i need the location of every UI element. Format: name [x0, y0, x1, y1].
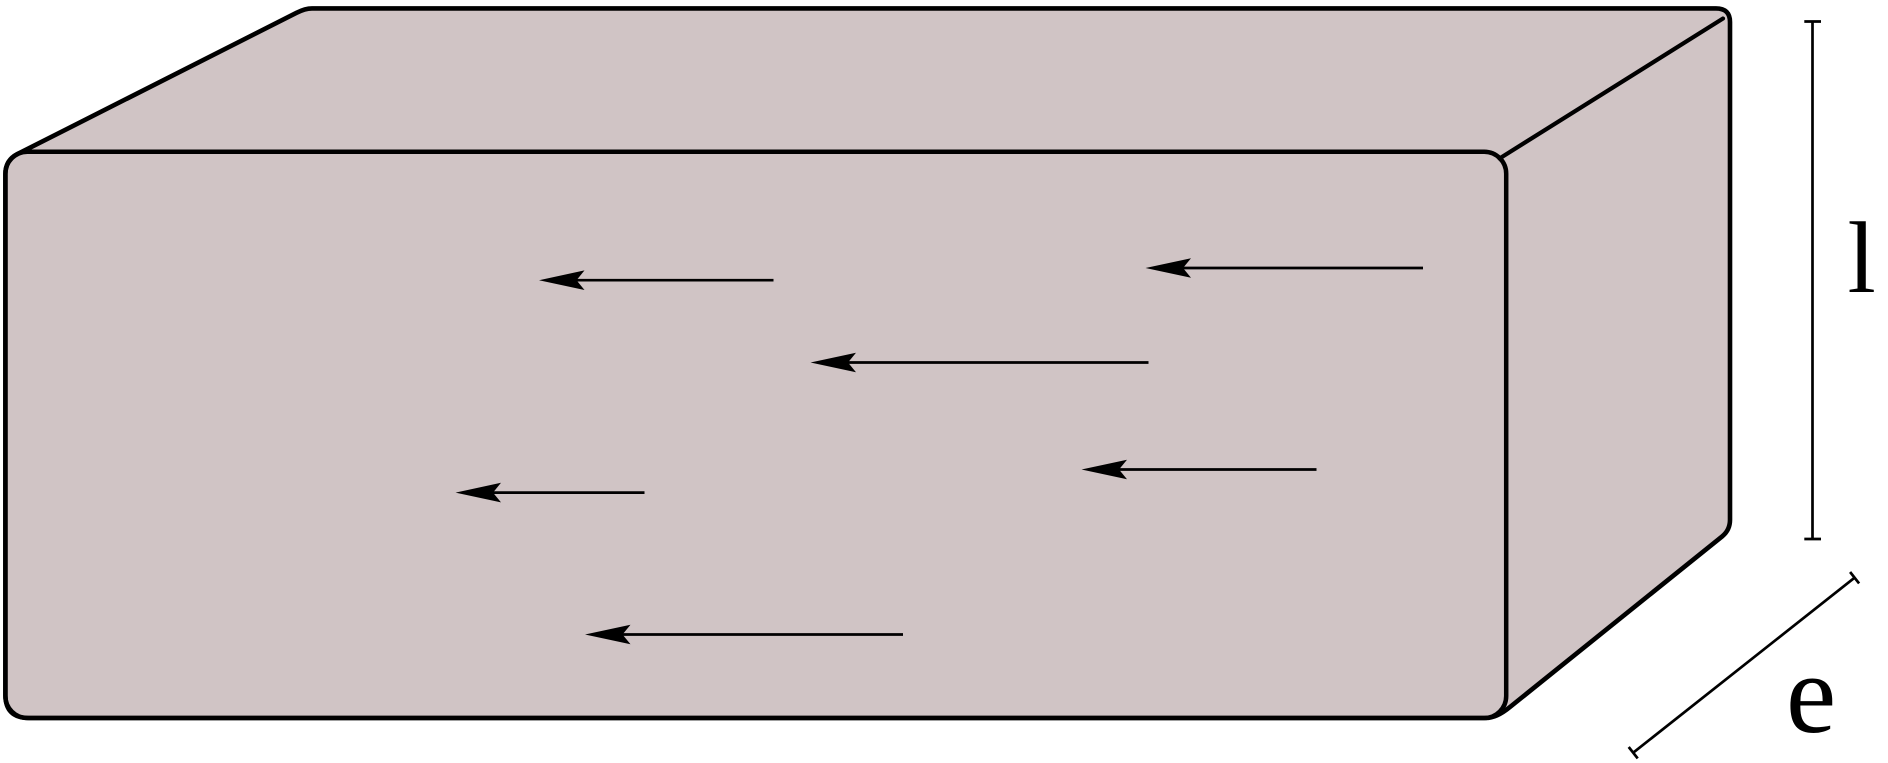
- dimension line l: [1804, 22, 1821, 540]
- arrow A6: [585, 625, 903, 645]
- front face outline: [5, 152, 1506, 718]
- arrow A4: [1082, 460, 1317, 480]
- arrow A1: [539, 270, 774, 290]
- top-right interior edge: [1500, 19, 1724, 159]
- arrow A3: [811, 353, 1149, 373]
- svg-text:l: l: [1848, 202, 1876, 315]
- current arrows (leftward): [456, 258, 1424, 644]
- arrow A2: [1146, 258, 1424, 278]
- arrow A5: [456, 483, 645, 503]
- svg-text:e: e: [1786, 632, 1836, 757]
- dimension line e: [1629, 572, 1859, 758]
